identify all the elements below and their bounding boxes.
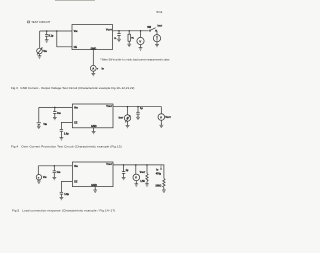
svg-text:Fig.5 Load connection respon: Fig.5 Load connection response (Characte… <box>12 208 115 212</box>
ground (RL) <box>127 44 131 46</box>
ground (GND pin) <box>93 190 97 192</box>
svg-text:VIN: VIN <box>74 30 78 33</box>
svg-text:CE: CE <box>74 46 78 49</box>
current source Iout load <box>153 31 160 45</box>
node cap tap <box>137 106 139 108</box>
ground (CE cap) <box>60 138 64 140</box>
ground (GND pin) <box>92 131 96 133</box>
node CIN junction <box>54 107 56 109</box>
ground (V meter) <box>134 184 138 186</box>
wire CE lead <box>61 122 72 129</box>
node resistor tap <box>128 30 130 32</box>
ground (output cap) <box>136 117 140 119</box>
ground (CIN) <box>53 117 57 119</box>
svg-text:1.0µ: 1.0µ <box>64 133 69 136</box>
svg-text:GND: GND <box>91 125 97 128</box>
svg-text:V: V <box>135 176 137 180</box>
ammeter A load (variable) <box>124 107 130 126</box>
capacitor CIN <box>53 166 56 178</box>
voltmeter V (Vout) <box>133 165 140 184</box>
ground (ammeter load) <box>126 125 130 127</box>
capacitor CE 1.0u <box>60 192 63 197</box>
node Io annotation arrow <box>160 166 162 171</box>
svg-text:Fig.4 Over Current Protectio: Fig.4 Over Current Protection Test Circu… <box>11 145 122 149</box>
svg-text:CIN: CIN <box>57 171 61 174</box>
node CE junction <box>56 30 58 32</box>
ground (CL) <box>117 39 121 41</box>
wire VIN rail <box>39 106 73 108</box>
svg-text:VIN: VIN <box>74 165 78 168</box>
svg-text:VIN: VIN <box>43 50 47 53</box>
svg-text:V: V <box>160 115 162 119</box>
ground (V meter) <box>139 48 143 51</box>
node meter tap <box>140 30 142 32</box>
wire VOUT rail <box>113 165 164 179</box>
svg-text:GND: GND <box>91 184 97 187</box>
op-amp U3 (regulator IC box) <box>72 162 113 187</box>
capacitor CE 1.0u <box>60 129 63 137</box>
op-amp U2 (regulator IC box) <box>72 104 113 128</box>
svg-text:1.0µ: 1.0µ <box>64 193 69 196</box>
ground (1.5k resistor) <box>145 184 149 186</box>
svg-text:* When SW is at the IOUT side,: * When SW is at the IOUT side, load curr… <box>100 58 170 61</box>
wire GND pin lead <box>94 187 96 190</box>
resistor RL load <box>128 31 130 44</box>
ground (VIN source) <box>38 54 42 58</box>
node CIN junction <box>54 165 56 167</box>
node meter tap <box>135 164 137 166</box>
wire VIN rail <box>38 165 72 167</box>
svg-text:VOUT: VOUT <box>140 171 146 174</box>
wire VIN rail <box>40 30 72 32</box>
ground (VIN source) <box>37 180 41 184</box>
svg-text:VOUT: VOUT <box>106 163 113 166</box>
node ammeter tap <box>127 106 129 108</box>
ground (output cap) <box>122 177 126 179</box>
wire VIN source lead <box>38 107 40 122</box>
svg-text:VIN: VIN <box>74 106 78 109</box>
ground (Iout source) <box>155 44 159 46</box>
ground (C1) <box>45 40 49 42</box>
svg-text:CE: CE <box>74 181 78 184</box>
capacitor 1u output <box>136 107 139 118</box>
svg-text:5/11: 5/11 <box>156 10 162 14</box>
wire GND pin lead <box>93 128 95 132</box>
capacitor 1u output <box>122 165 125 178</box>
wire VIN source lead <box>39 31 41 48</box>
svg-text:1.5k: 1.5k <box>140 180 145 183</box>
svg-text:VOUT: VOUT <box>165 116 171 119</box>
ammeter A (GND current) <box>90 50 96 74</box>
wire CE tap <box>57 31 72 47</box>
svg-text:V: V <box>139 39 141 43</box>
switch SW <box>149 28 156 32</box>
wire VOUT rail <box>113 30 149 32</box>
svg-text:0.1µ: 0.1µ <box>49 34 54 37</box>
wire CE lead <box>61 182 72 193</box>
section heading TEST CIRCUIT <box>28 20 51 24</box>
voltage source VIN (variable) <box>37 48 43 55</box>
svg-text:VOUT: VOUT <box>106 105 113 108</box>
ground (battery) <box>37 126 41 128</box>
svg-text:TEST CIRCUIT: TEST CIRCUIT <box>31 20 50 24</box>
capacitor C1 0.1u input <box>45 31 48 40</box>
ground (CIN) <box>52 177 56 179</box>
svg-text:VIN: VIN <box>43 176 47 179</box>
node cap tap <box>118 30 120 32</box>
svg-text:470µ: 470µ <box>156 173 162 176</box>
battery VIN <box>37 123 41 126</box>
svg-text:VIN: VIN <box>43 123 47 126</box>
svg-text:100Ω: 100Ω <box>155 184 161 187</box>
resistor 100ohm load <box>163 178 165 190</box>
wire VIN source lead <box>37 166 39 175</box>
svg-text:CE: CE <box>74 121 78 124</box>
voltmeter V (Vout) <box>158 114 165 126</box>
op-amp U1 (regulator IC box) <box>72 25 113 50</box>
ground (V meter) <box>159 125 163 127</box>
ground (load resistor) <box>162 190 166 192</box>
wire VOUT rail <box>113 107 161 114</box>
svg-text:A: A <box>126 116 128 120</box>
scan artifact top edge <box>55 0 95 1</box>
svg-text:CIN: CIN <box>57 112 61 115</box>
ground (CE cap) <box>60 197 64 199</box>
svg-text:A: A <box>92 67 94 71</box>
node resistor tap <box>146 164 148 166</box>
node input rail junction <box>46 30 48 32</box>
capacitor CL output <box>117 31 120 39</box>
svg-text:Fig.3 GND Current - Output V: Fig.3 GND Current - Output Voltage Test … <box>11 86 134 90</box>
ground (ammeter) <box>91 73 95 75</box>
capacitor CIN <box>53 107 56 117</box>
node cap tap <box>123 164 125 166</box>
voltmeter V (Vout) <box>137 31 144 48</box>
voltage source VIN <box>36 175 41 180</box>
resistor 1.5k <box>146 165 148 184</box>
svg-text:VOUT: VOUT <box>106 29 113 32</box>
